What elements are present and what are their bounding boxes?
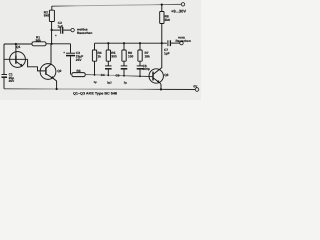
svg-text:300: 300 xyxy=(111,55,117,59)
svg-text:5k6: 5k6 xyxy=(165,19,171,23)
svg-text:C3: C3 xyxy=(76,51,80,55)
svg-text:C2: C2 xyxy=(58,21,62,25)
svg-text:600p: 600p xyxy=(143,68,150,72)
svg-text:1k: 1k xyxy=(98,55,102,59)
svg-text:1µF: 1µF xyxy=(164,52,170,56)
svg-text:R5: R5 xyxy=(111,52,115,56)
svg-text:0V: 0V xyxy=(193,85,197,89)
svg-text:R6: R6 xyxy=(128,52,132,56)
svg-text:Rauschen: Rauschen xyxy=(77,32,92,36)
svg-text:100: 100 xyxy=(128,55,134,59)
svg-text:Q1–Q3 AKE Type BC 548: Q1–Q3 AKE Type BC 548 xyxy=(73,92,117,96)
svg-text:R3: R3 xyxy=(77,69,81,73)
svg-text:2µ: 2µ xyxy=(124,82,127,85)
svg-text:2µ2: 2µ2 xyxy=(107,81,112,84)
svg-text:1µ: 1µ xyxy=(94,81,97,84)
svg-text:5k6: 5k6 xyxy=(44,14,50,18)
svg-text:C7: C7 xyxy=(164,49,168,53)
svg-text:Q1: Q1 xyxy=(16,45,20,49)
svg-text:rosa: rosa xyxy=(178,36,185,40)
svg-text:C5: C5 xyxy=(116,74,120,78)
svg-text:Q2: Q2 xyxy=(57,69,61,73)
svg-text:18k: 18k xyxy=(145,55,151,59)
svg-text:R4: R4 xyxy=(98,52,102,56)
svg-text:56k: 56k xyxy=(36,39,42,43)
svg-text:C4: C4 xyxy=(101,73,105,77)
svg-text:R8: R8 xyxy=(165,15,169,19)
svg-text:R7: R7 xyxy=(145,52,149,56)
svg-text:Rauschen: Rauschen xyxy=(176,39,191,43)
svg-text:Q3: Q3 xyxy=(164,73,168,77)
svg-text:+: + xyxy=(63,51,65,54)
svg-text:weißes: weißes xyxy=(77,28,88,32)
svg-text:25µF: 25µF xyxy=(76,55,83,59)
svg-text:25V: 25V xyxy=(76,58,82,62)
svg-text:1µF: 1µF xyxy=(57,25,63,29)
svg-text:+9...30V: +9...30V xyxy=(171,9,186,14)
svg-text:25V: 25V xyxy=(9,80,15,84)
svg-text:+: + xyxy=(55,35,57,38)
